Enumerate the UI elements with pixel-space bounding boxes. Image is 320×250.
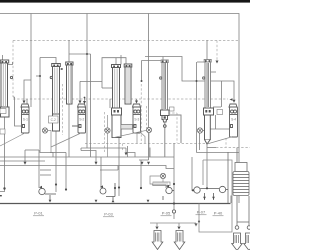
svg-text:S-1: S-1	[23, 118, 28, 122]
svg-text:P-07: P-07	[197, 210, 206, 215]
svg-text:S-3: S-3	[134, 118, 139, 122]
svg-text:P-05: P-05	[162, 211, 171, 216]
svg-text:P-01: P-01	[34, 211, 43, 216]
svg-text:S-2: S-2	[79, 118, 84, 122]
svg-text:S-4: S-4	[231, 118, 236, 122]
svg-text:P-40: P-40	[214, 211, 223, 216]
svg-text:C-2: C-2	[51, 118, 56, 122]
svg-text:P-03: P-03	[104, 212, 113, 217]
